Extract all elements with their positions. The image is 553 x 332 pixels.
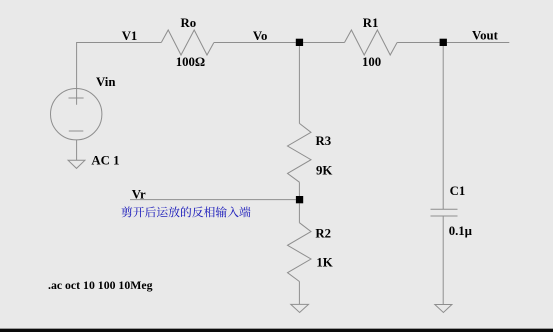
svg-text:C1: C1 (450, 184, 466, 198)
resistor R2 (288, 223, 312, 282)
resistor R1 (345, 30, 398, 55)
svg-text:Vin: Vin (96, 75, 115, 89)
svg-text:Ro: Ro (181, 16, 197, 30)
svg-text:Vo: Vo (253, 29, 267, 43)
svg-text:100Ω: 100Ω (176, 55, 205, 69)
svg-text:9K: 9K (316, 164, 332, 178)
svg-text:R3: R3 (316, 134, 332, 148)
svg-text:R1: R1 (363, 16, 379, 30)
annotation: blue Chinese note (inverting input of the opamp after cutting) (122, 206, 251, 217)
resistor Ro (161, 30, 214, 55)
svg-text:1K: 1K (316, 256, 332, 270)
wire: R1 to node Vout (397, 42, 440, 44)
wire: V1 corner from source top to Ro (77, 43, 162, 105)
voltage source Vin (circle with plus and minus) (50, 89, 101, 140)
svg-text:Vout: Vout (472, 29, 499, 43)
wire: node Vout stub right (447, 42, 509, 44)
wire: node Vout down to C1 (442, 46, 444, 209)
capacitor C1 (431, 209, 458, 216)
node Vo junction square (296, 39, 303, 46)
svg-text:.ac oct 10 100 10Meg: .ac oct 10 100 10Meg (48, 278, 153, 292)
wire: source bottom to ground (76, 140, 78, 160)
wire: Vr stub left (130, 199, 296, 201)
wire: R3 to node Vr (298, 182, 300, 196)
svg-text:AC 1: AC 1 (91, 154, 119, 168)
wire: C1 to ground (442, 216, 444, 305)
node Vr junction square (296, 196, 303, 203)
ground: below source (68, 160, 85, 168)
bottom bar (0, 328, 553, 329)
resistor R3 (288, 123, 312, 182)
wire: node Vo down to R3 (298, 46, 300, 123)
svg-text:Vr: Vr (132, 188, 146, 202)
wire: node Vr down to R2 (298, 203, 300, 222)
wire: R2 to ground (298, 282, 300, 305)
wire: node Vo to R1 (303, 42, 344, 44)
svg-text:V1: V1 (122, 29, 138, 43)
ground: below R2 (291, 304, 309, 312)
svg-text:100: 100 (362, 55, 381, 69)
svg-text:0.1µ: 0.1µ (449, 224, 473, 238)
svg-text:R2: R2 (315, 226, 331, 240)
node Vout junction square (440, 39, 447, 46)
ground: below C1 (435, 305, 452, 313)
wire: Ro to node Vo (214, 42, 296, 44)
